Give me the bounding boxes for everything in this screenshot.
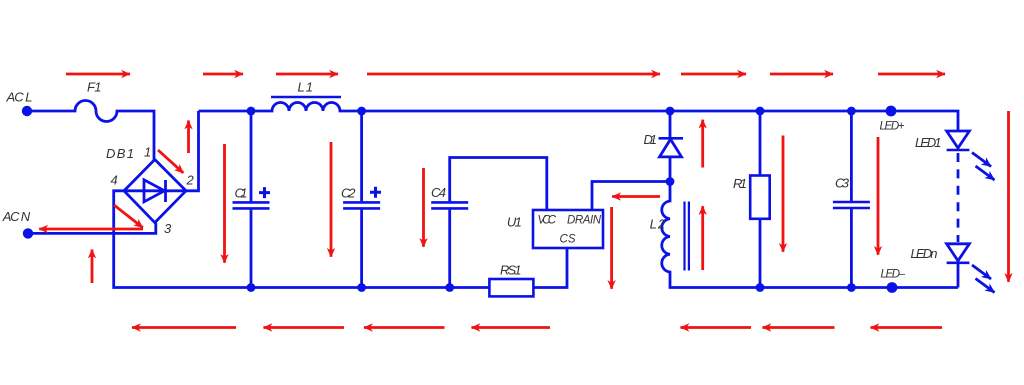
svg-text:L1: L1 (298, 80, 314, 95)
svg-text:1: 1 (144, 145, 151, 160)
svg-text:DRAIN: DRAIN (567, 215, 602, 227)
svg-text:LED1: LED1 (915, 135, 942, 150)
svg-text:2: 2 (186, 173, 195, 188)
svg-text:LED+: LED+ (880, 121, 905, 133)
svg-text:F1: F1 (87, 80, 102, 95)
svg-text:3: 3 (164, 221, 172, 236)
svg-text:C3: C3 (835, 176, 850, 191)
svg-text:4: 4 (111, 173, 118, 188)
svg-text:D1: D1 (644, 132, 658, 147)
svg-text:R1: R1 (733, 176, 747, 191)
svg-text:LED–: LED– (881, 269, 906, 281)
svg-text:DB1: DB1 (106, 146, 134, 161)
svg-text:CS: CS (560, 234, 576, 246)
svg-text:LEDn: LEDn (911, 246, 938, 261)
svg-text:VCC: VCC (538, 215, 557, 227)
svg-text:L2: L2 (650, 217, 666, 232)
svg-text:RS1: RS1 (500, 263, 522, 278)
svg-text:AC L: AC L (6, 90, 33, 105)
svg-text:U1: U1 (507, 215, 522, 230)
svg-text:AC N: AC N (2, 209, 31, 224)
svg-text:C4: C4 (431, 185, 446, 200)
svg-text:C2: C2 (341, 186, 356, 201)
svg-text:C1: C1 (235, 186, 248, 201)
